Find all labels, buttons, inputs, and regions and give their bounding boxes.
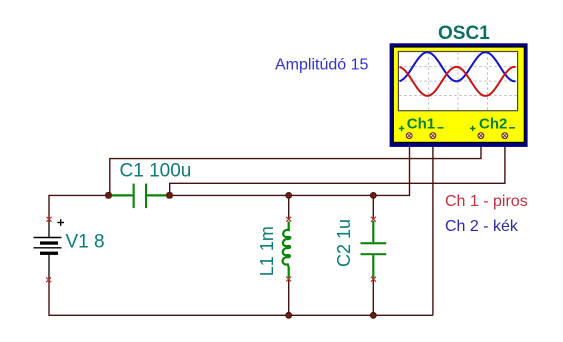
- svg-text:C1 100u: C1 100u: [120, 161, 192, 182]
- svg-text:L1 1m: L1 1m: [257, 226, 277, 276]
- svg-text:Ch1: Ch1: [407, 116, 435, 133]
- blue waveform Ch2: [400, 52, 516, 81]
- label Ch2 plus sign: [470, 126, 475, 131]
- node B junction dot: [167, 192, 173, 198]
- pin cross C2 top: [371, 217, 376, 222]
- svg-text:V1 8: V1 8: [66, 232, 105, 253]
- wire node B jog to Ch2-: [170, 137, 505, 195]
- svg-text:Ch 1 - piros: Ch 1 - piros: [445, 193, 528, 210]
- screen grid: [399, 52, 518, 110]
- pin cross battery top: [47, 217, 52, 222]
- capacitor C2: [361, 221, 387, 278]
- pin cross L1 bottom: [286, 277, 291, 282]
- wire battery top to node A: [49, 195, 109, 219]
- terminal Ch1 plus: [406, 133, 412, 139]
- label Ch1 plus sign: [399, 126, 404, 131]
- wire L1 top stub: [288, 195, 290, 219]
- red waveform Ch1: [400, 67, 516, 96]
- wire Ch1- down to bottom rail: [432, 137, 434, 315]
- label Ch1 minus sign: [438, 127, 444, 129]
- node A junction dot: [106, 192, 112, 198]
- junction dot C2 bottom: [370, 312, 376, 318]
- wire battery bottom and bottom rail: [49, 280, 433, 316]
- wire L1 bottom stub: [288, 279, 290, 315]
- pin cross battery bottom: [46, 277, 51, 282]
- svg-text:OSC1: OSC1: [438, 23, 490, 44]
- label Ch2 minus sign: [509, 127, 515, 129]
- wire C2 bottom stub: [372, 279, 374, 315]
- battery plus sign: [57, 219, 64, 226]
- pin cross C1 right: [167, 193, 173, 199]
- svg-text:Ch2: Ch2: [479, 116, 507, 133]
- pin cross C2 bottom: [371, 277, 376, 282]
- terminal Ch2 plus: [478, 133, 484, 139]
- wire node A up and across to Ch2+: [110, 137, 481, 195]
- pin cross C1 left: [106, 193, 112, 199]
- junction dot L1 top: [286, 192, 292, 198]
- junction dot L1 bottom: [286, 312, 292, 318]
- capacitor C1: [109, 184, 170, 209]
- svg-text:Ch 2 - kék: Ch 2 - kék: [445, 218, 519, 235]
- svg-text:Amplitúdó 15: Amplitúdó 15: [275, 57, 368, 74]
- pin cross L1 top: [286, 217, 291, 222]
- battery V1: [34, 219, 62, 279]
- terminal Ch1 minus: [430, 133, 436, 139]
- wire node B rail to Ch1+: [170, 137, 410, 195]
- wire C2 top stub: [372, 195, 374, 219]
- oscilloscope screen: [398, 52, 517, 111]
- svg-text:C2 1u: C2 1u: [334, 219, 354, 267]
- junction dot C2 top: [370, 192, 376, 198]
- oscilloscope OSC1 body: [390, 43, 528, 147]
- inductor L1: [283, 222, 291, 279]
- terminal Ch2 minus: [502, 133, 508, 139]
